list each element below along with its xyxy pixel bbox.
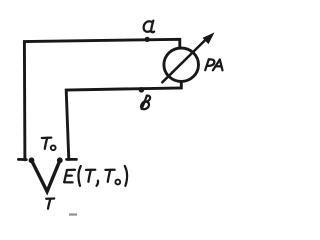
ammeter needle arrowhead (203, 32, 215, 44)
ammeter needle (162, 39, 207, 83)
label PA (meter) (205, 59, 209, 70)
label B (node v, cyrillic ve) (142, 96, 147, 109)
wire meter bottom stub and lower horizontal to inner vertical (66, 82, 181, 160)
label E(T, T0) emf (67, 169, 75, 171)
wire left terminal tick (18, 158, 26, 161)
label T0 (cold junction temperature) (42, 136, 52, 139)
wire right terminal tick (67, 158, 77, 161)
left cold-junction dot T0 (29, 157, 35, 163)
ammeter PA circle U1 (164, 48, 199, 81)
cropped caption fragment at bottom (69, 213, 77, 215)
thermocouple V junction (32, 160, 60, 191)
node B junction dot (139, 87, 145, 93)
label T (hot junction temperature) (46, 197, 54, 200)
node a junction dot (145, 37, 150, 42)
label a (node a) (144, 21, 152, 31)
right cold-junction dot T0 (57, 157, 63, 163)
wire outer loop: left vertical, top horizontal, down to meter top (24, 39, 179, 160)
